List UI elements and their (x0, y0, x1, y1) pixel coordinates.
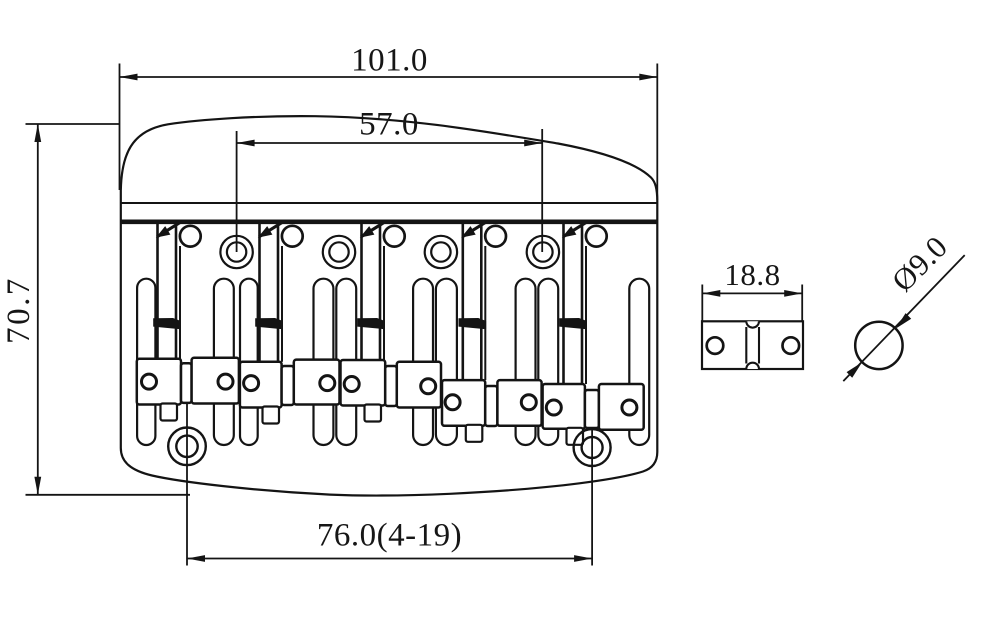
saddle block B6 (397, 362, 441, 408)
svg-text:Ø9.0: Ø9.0 (885, 229, 954, 298)
intonation screw shaft, string 5 (564, 224, 587, 384)
dimension text 76.0(4-19) (317, 518, 462, 554)
saddle link L5 (585, 390, 599, 428)
string hole circle (855, 322, 902, 369)
dimension text 18.8 (724, 257, 780, 292)
dimension text diameter 9.0 (885, 229, 954, 298)
dimension line 18.8 (702, 290, 802, 297)
plate lip edge (thick) (121, 220, 658, 225)
saddle screw hole 10 (622, 400, 637, 415)
mounting screw hole 1 (countersunk) (220, 236, 252, 268)
saddle link L3 (385, 366, 397, 406)
saddle block B7 (442, 380, 485, 426)
extension line left (101.0) (119, 64, 121, 191)
string slot 10 (629, 279, 649, 445)
saddle screw hole 1 (142, 374, 157, 389)
saddle detail channel right wall (758, 327, 760, 364)
saddle block B4 (294, 360, 340, 405)
screw tail tab, string 3 (365, 405, 382, 422)
string slot 1 (137, 279, 155, 445)
screw anchor circle, string 4 (485, 226, 506, 247)
string slot 5 (336, 279, 356, 445)
screw anchor circle, string 5 (586, 226, 607, 247)
saddle block B1 (137, 359, 181, 405)
string slot 8 (516, 279, 536, 445)
extension line right (57.0) (541, 129, 543, 252)
screw head arrow, string 5 (562, 222, 587, 237)
extension line bottom (70.7) (26, 494, 191, 496)
svg-text:70.7: 70.7 (1, 276, 37, 344)
spring stop wedge, string 1 (153, 318, 181, 329)
saddle block B5 (341, 360, 386, 406)
diameter arrow lower-left (847, 362, 863, 378)
dimension line 70.7 (34, 124, 41, 495)
intonation screw shaft, string 3 (362, 224, 385, 360)
dimension text 57.0 (359, 107, 419, 143)
saddle screw hole 7 (445, 395, 460, 410)
intonation screw shaft, string 2 (260, 224, 283, 362)
saddle screw hole 4 (320, 376, 335, 391)
saddle detail top notch (746, 321, 759, 327)
string slot 6 (413, 279, 433, 445)
saddle block B10 (599, 384, 644, 430)
dimension text 70.7 (1, 276, 37, 344)
saddle screw hole 2 (218, 374, 233, 389)
dimension text 101.0 (351, 43, 428, 79)
string slot 2 (214, 279, 234, 445)
spring stop wedge, string 4 (459, 318, 487, 329)
screw tail tab, string 1 (161, 404, 178, 421)
extension line right (18.8) (801, 285, 803, 322)
extension line top (70.7) (26, 123, 121, 125)
screw tail tab, string 4 (466, 425, 483, 442)
string slot 3 (240, 279, 258, 445)
intonation screw shaft, string 1 (158, 224, 181, 359)
svg-text:18.8: 18.8 (724, 257, 780, 292)
saddle screw hole 3 (244, 376, 259, 391)
saddle detail bottom notch (746, 363, 759, 369)
string slot 4 (314, 279, 334, 445)
bridge plate outline (top view) (121, 116, 658, 495)
screw anchor circle, string 2 (282, 226, 303, 247)
intonation screw shaft, string 4 (463, 224, 486, 380)
extension line left (76.0) (186, 404, 188, 566)
screw anchor circle, string 1 (180, 226, 201, 247)
saddle link L1 (181, 363, 192, 403)
screw anchor circle, string 3 (384, 226, 405, 247)
dimension line 57.0 (237, 140, 543, 147)
spring stop wedge, string 2 (255, 318, 283, 329)
saddle detail channel left wall (745, 327, 747, 364)
saddle screw hole 5 (344, 377, 359, 392)
string slot 7 (436, 279, 457, 445)
screw head arrow, string 2 (258, 222, 283, 237)
mounting hole bottom-right (574, 429, 611, 466)
mounting screw hole 2 (countersunk) (323, 236, 355, 268)
diameter leader line (843, 255, 964, 381)
saddle block B2 (192, 358, 239, 404)
screw tail tab, string 2 (263, 407, 280, 424)
dimension line 101.0 (120, 74, 658, 81)
extension line right (101.0) (656, 64, 658, 201)
saddle link L2 (282, 366, 294, 405)
mounting screw hole 3 (countersunk) (425, 236, 457, 268)
saddle block B3 (240, 362, 282, 408)
saddle detail body (702, 321, 803, 369)
spring stop wedge, string 5 (559, 318, 587, 329)
svg-text:57.0: 57.0 (359, 107, 419, 143)
mounting screw hole 4 (countersunk) (527, 236, 559, 268)
screw tail tab, string 5 (567, 428, 584, 445)
screw head arrow, string 1 (156, 222, 181, 237)
saddle screw hole 6 (421, 379, 436, 394)
screw head arrow, string 4 (461, 222, 486, 237)
saddle block B8 (497, 380, 541, 426)
dimension line 76.0(4-19) (187, 555, 592, 562)
svg-text:76.0(4-19): 76.0(4-19) (317, 518, 462, 554)
mounting hole bottom-left (168, 428, 206, 466)
plate bend line (thin) (121, 202, 658, 204)
svg-text:101.0: 101.0 (351, 43, 428, 79)
extension line left (57.0) (236, 131, 238, 252)
saddle detail hole right (783, 337, 800, 354)
diameter arrow upper-right (896, 313, 912, 329)
saddle block B9 (543, 384, 585, 429)
saddle detail hole left (707, 337, 724, 354)
saddle screw hole 8 (521, 395, 536, 410)
saddle screw hole 9 (546, 400, 561, 415)
saddle link L4 (485, 386, 497, 426)
spring stop wedge, string 3 (357, 318, 385, 329)
extension line left (18.8) (701, 285, 703, 322)
string slot 9 (538, 279, 558, 445)
extension line right (76.0) (591, 430, 593, 566)
screw head arrow, string 3 (360, 222, 385, 237)
